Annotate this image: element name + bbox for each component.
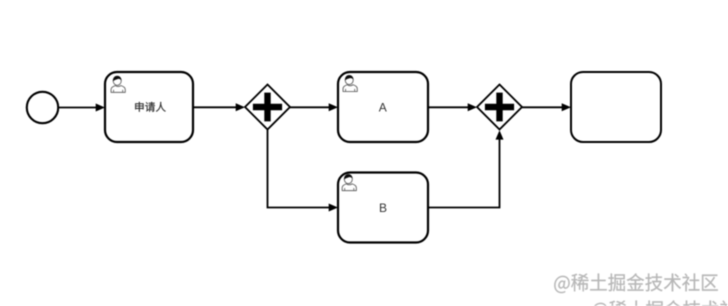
svg-text:B: B xyxy=(379,201,387,215)
svg-text:A: A xyxy=(379,101,387,115)
